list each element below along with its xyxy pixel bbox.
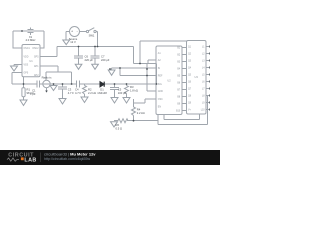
svg-text:U2: U2 <box>167 79 171 83</box>
svg-text:R4: R4 <box>137 108 141 112</box>
svg-text:220 μF: 220 μF <box>101 58 110 62</box>
svg-text:B10: B10 <box>176 111 181 113</box>
svg-text:+: + <box>71 30 73 34</box>
svg-text:4.7 F: 4.7 F <box>68 91 74 95</box>
svg-text:GP1: GP1 <box>34 66 39 68</box>
svg-text:EN: EN <box>158 107 162 109</box>
svg-text:GP0: GP0 <box>24 73 29 75</box>
svg-text:OSC: OSC <box>158 99 163 101</box>
svg-text:220 μF: 220 μF <box>85 58 94 62</box>
svg-text:VSS: VSS <box>24 65 29 67</box>
svg-text:SIG: SIG <box>158 84 162 86</box>
svg-text:VDD: VDD <box>24 57 29 59</box>
svg-text:Radio tx: Radio tx <box>42 76 53 80</box>
svg-text:GP2: GP2 <box>34 75 39 77</box>
svg-text:0.5 Ω: 0.5 Ω <box>116 127 123 131</box>
svg-text:X1: X1 <box>29 35 33 39</box>
svg-text:REF: REF <box>158 76 163 78</box>
svg-text:GND: GND <box>158 91 163 93</box>
svg-text:U3: U3 <box>195 75 199 79</box>
svg-text:100 μF: 100 μF <box>118 91 127 95</box>
svg-text:D1: D1 <box>100 88 104 92</box>
svg-text:http://circuitlab.com/c6qk55w: http://circuitlab.com/c6qk55w <box>44 157 91 161</box>
svg-text:2.2 kΩ: 2.2 kΩ <box>88 91 96 95</box>
svg-text:C3: C3 <box>68 88 72 92</box>
svg-text:IN: IN <box>158 68 161 70</box>
svg-text:1.8 kΩ: 1.8 kΩ <box>130 89 138 93</box>
svg-text:4.0 MHz: 4.0 MHz <box>25 38 36 42</box>
svg-text:U1: U1 <box>29 59 33 63</box>
svg-text:2.2 kΩ: 2.2 kΩ <box>137 111 145 115</box>
svg-text:C1: C1 <box>32 89 36 93</box>
svg-text:C7: C7 <box>101 55 105 59</box>
svg-text:LAB: LAB <box>24 157 36 163</box>
svg-text:R2: R2 <box>88 88 92 92</box>
svg-text:OSC1: OSC1 <box>24 48 31 50</box>
svg-text:-: - <box>77 30 78 34</box>
svg-text:C6: C6 <box>85 55 89 59</box>
svg-text:C5: C5 <box>118 88 122 92</box>
svg-text:GP5: GP5 <box>34 57 39 59</box>
svg-text:12 V: 12 V <box>70 40 76 44</box>
svg-text:SW1: SW1 <box>89 34 95 38</box>
svg-text:Source: Source <box>69 37 78 41</box>
svg-text:1N4148: 1N4148 <box>97 91 107 95</box>
svg-text:R6: R6 <box>116 123 120 127</box>
svg-text:4.7 F: 4.7 F <box>75 91 81 95</box>
svg-text:C4: C4 <box>75 88 79 92</box>
svg-text:OSC2: OSC2 <box>32 48 39 50</box>
svg-text:1 μF: 1 μF <box>30 92 36 96</box>
svg-text:R3: R3 <box>130 85 134 89</box>
svg-text:R1: R1 <box>27 88 31 92</box>
svg-text:circuitboard3 | Mu Meter 12v: circuitboard3 | Mu Meter 12v <box>44 151 96 156</box>
